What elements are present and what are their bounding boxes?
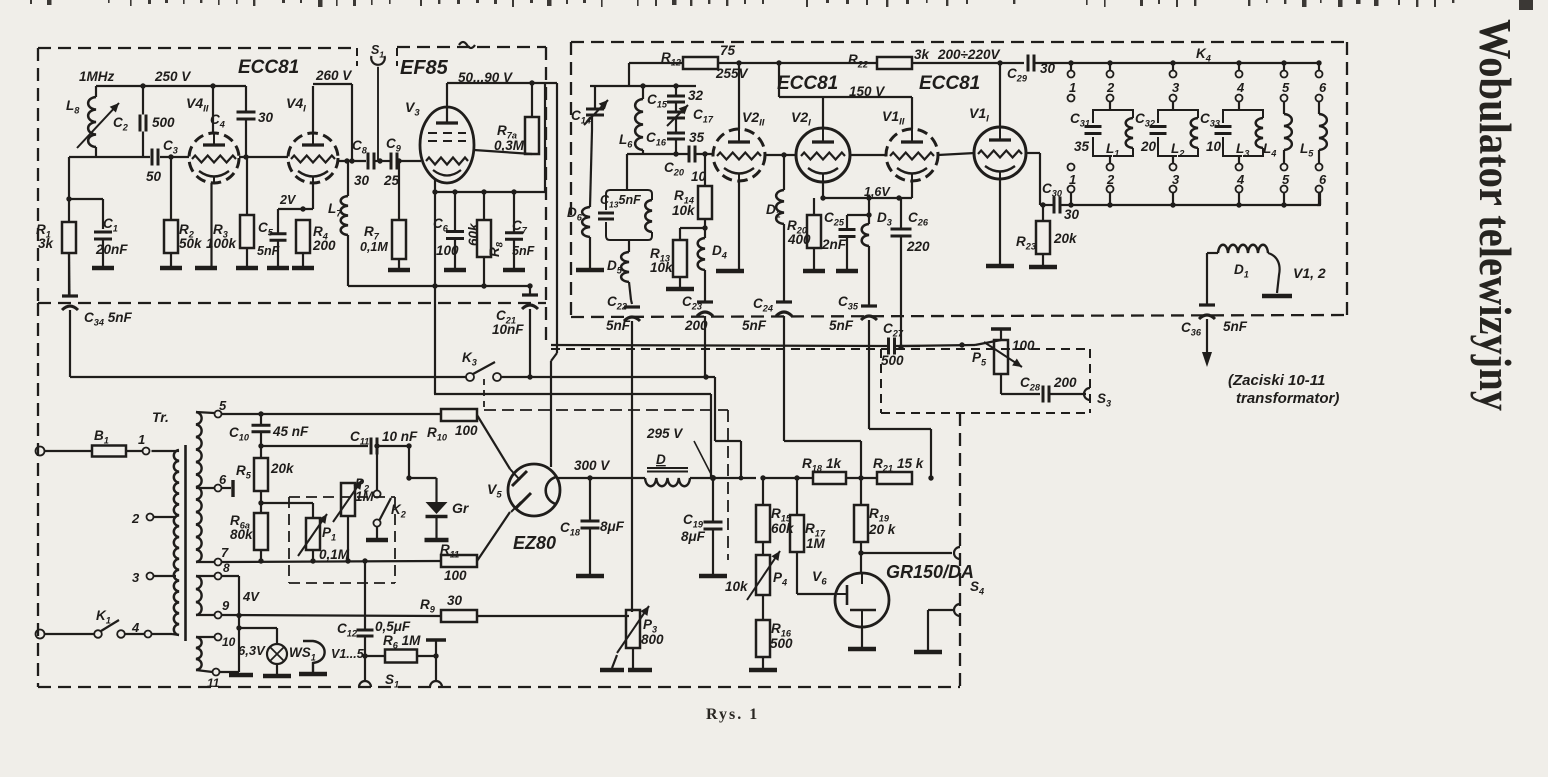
terminal tap 9: [215, 612, 222, 619]
switch K4 contact lower 6b: [1316, 186, 1323, 193]
svg-text:Gr: Gr: [452, 500, 470, 516]
svg-text:10k: 10k: [650, 260, 674, 275]
label WS1: [289, 645, 316, 663]
tube V4I (ECC81 half): [288, 133, 338, 184]
wire C28 to S3: [1050, 393, 1086, 395]
coil D1: [1207, 245, 1268, 300]
wire tap 3: [153, 575, 176, 577]
wire input to K1: [44, 633, 94, 635]
svg-text:1M: 1M: [355, 489, 375, 504]
junction R1-C1: [66, 196, 71, 201]
label C12: [337, 621, 358, 639]
label R17: [805, 521, 826, 539]
dashed enclosure PSU box right edge: [959, 413, 961, 687]
resistor R11: [441, 555, 477, 567]
wire tap 10: [196, 636, 214, 638]
capacitor C11: [371, 438, 377, 455]
resistor R12: [683, 57, 718, 69]
junction C27 out: [959, 342, 964, 347]
value label 10nF (C21): [492, 322, 524, 337]
terminal tap 10: [215, 634, 222, 641]
label C28: [1020, 375, 1041, 393]
tank circuit C33 L3: [1215, 110, 1264, 156]
label R18: [802, 456, 823, 474]
label C31: [1070, 111, 1090, 129]
wire C10-C11 line: [261, 445, 368, 447]
junction C12 top: [362, 558, 367, 563]
pin number 5 (upper): [1282, 80, 1290, 95]
value label 30 (C29): [1040, 61, 1056, 76]
value label 500 (R16): [770, 636, 793, 651]
svg-text:20nF: 20nF: [95, 242, 128, 257]
value label 10nF (C11): [382, 429, 418, 444]
junction C30-R23: [1040, 202, 1045, 207]
cut-off text row from previous page: [30, 0, 1533, 10]
junction K4 rail col 3: [1170, 60, 1175, 65]
label L8: [66, 98, 80, 116]
wire C22 down: [631, 321, 633, 612]
label C22: [607, 294, 628, 312]
value label 8uF (C19): [681, 529, 706, 544]
pin number 6 (upper): [1319, 80, 1327, 95]
value label 0,1M (P1): [319, 547, 350, 562]
wire P4 to R16: [762, 595, 764, 620]
label V1...5: [331, 647, 365, 661]
wire C8 to C9: [375, 160, 390, 162]
resistor R2: [164, 157, 178, 266]
value label 200 (C23): [684, 318, 708, 333]
svg-text:100: 100: [444, 568, 467, 583]
ground under D6: [576, 268, 604, 273]
wire bus to R18: [797, 477, 813, 479]
switch K4 contact lower 2b: [1107, 186, 1114, 193]
value label 5nF (C24): [742, 318, 767, 333]
junction C4-grid: [243, 154, 248, 159]
wire K4 lower stub col 3: [1172, 193, 1174, 206]
switch K4 contact lower 1a: [1068, 164, 1075, 171]
coil L4: [1284, 114, 1292, 150]
wire S4 lower to ground: [928, 610, 954, 650]
tank circuit C31 L1: [1085, 110, 1134, 156]
value label 35 (C31): [1074, 139, 1090, 154]
junction V2I cathode node: [820, 195, 825, 200]
ground under P3: [600, 668, 624, 673]
label 200-220V: [937, 47, 1000, 62]
svg-text:100k: 100k: [206, 236, 238, 251]
tube V2I (ECC81 half): [796, 128, 850, 183]
wire C1 to ground: [102, 239, 104, 266]
value label 800 (P3): [641, 632, 664, 647]
pin number 5: [219, 398, 227, 413]
pin number 10: [222, 635, 236, 649]
wire 150V line: [779, 63, 912, 97]
dashed P5 box right edge: [1089, 349, 1091, 413]
wire V2I anode: [822, 97, 824, 128]
junction K4 rail col 1: [1068, 60, 1073, 65]
pin number 1 (lower): [1069, 172, 1076, 187]
tube V6 (GR150/DA regulator): [835, 573, 889, 627]
value label 1k (R18): [826, 456, 843, 471]
resistor R22: [877, 57, 912, 69]
value label 100k: [206, 236, 238, 251]
svg-text:10: 10: [222, 635, 236, 649]
switch K4 contact upper 1b: [1068, 95, 1075, 102]
tube V3 (EF85 pentode): [420, 107, 474, 183]
svg-text:3k: 3k: [38, 236, 55, 251]
label 295V: [646, 426, 683, 441]
dashed stub at S1 gap left: [356, 48, 358, 66]
pin number 2 (primary): [131, 511, 140, 526]
switch K4 contact lower 6a: [1316, 164, 1323, 171]
svg-text:2: 2: [131, 511, 140, 526]
label Gr: [452, 500, 470, 516]
dashed enclosure box B right edge: [1346, 42, 1348, 316]
ground under R7: [388, 268, 410, 273]
value label 0,3M: [494, 138, 525, 153]
switch K4 contact lower 3a: [1170, 164, 1177, 171]
label K1: [96, 608, 111, 626]
junction R6 right: [433, 653, 438, 658]
ground under C1: [92, 266, 114, 271]
value label 10k (P4): [725, 579, 749, 594]
junction P2 bottom: [345, 558, 350, 563]
svg-text:1M: 1M: [806, 536, 826, 551]
wire C9 to V3 grid: [398, 160, 421, 162]
label Tr.: [152, 409, 169, 425]
wire R18 to R19 node: [846, 477, 877, 479]
junction K4 rail col 2: [1107, 60, 1112, 65]
label V5: [487, 481, 502, 501]
svg-text:260 V: 260 V: [315, 68, 352, 83]
wire V1I grid out: [1026, 153, 1040, 205]
svg-text:80k: 80k: [230, 527, 254, 542]
label 2V: [279, 193, 297, 207]
chassis bar tap 6: [231, 480, 234, 497]
svg-text:2: 2: [1106, 80, 1115, 95]
ground under R23: [1029, 265, 1057, 270]
value label 20k (R23): [1053, 231, 1078, 246]
label V4a: [186, 95, 209, 115]
wire K4 stub col 6: [1318, 63, 1320, 71]
label 1MHz: [79, 69, 115, 84]
capacitor C25: [839, 215, 856, 269]
label C1: [103, 216, 118, 234]
capacitor C36: [1199, 305, 1215, 319]
wire C36 top: [1206, 300, 1208, 305]
label L2: [1171, 141, 1185, 159]
resistor R19: [854, 478, 868, 553]
ground under C19: [699, 574, 727, 579]
svg-text:6: 6: [1319, 172, 1327, 187]
value label 220 (C26): [906, 239, 930, 254]
capacitor C1: [94, 232, 112, 239]
label R7a: [497, 123, 517, 141]
wire C20 to V2II grid: [696, 153, 713, 155]
dashed enclosure box A (oscillator+EF85 section) left edge: [37, 48, 39, 303]
label V1,2: [1293, 265, 1326, 281]
capacitor C2: [140, 86, 146, 157]
capacitor C4: [237, 86, 256, 157]
svg-text:20k: 20k: [270, 461, 295, 476]
label K2: [391, 502, 407, 520]
label C23: [682, 294, 702, 312]
wire bus to R17: [763, 477, 797, 479]
heater bracket V1...5: [303, 641, 325, 672]
svg-text:220: 220: [906, 239, 930, 254]
switch K4 contact upper 2a: [1107, 71, 1114, 78]
capacitor C19: [704, 478, 723, 574]
capacitor C35: [861, 306, 877, 320]
dashed enclosure box A top edge (left part): [38, 47, 357, 49]
coil D4: [698, 228, 705, 303]
label C6: [433, 216, 449, 234]
resistor R20: [807, 198, 821, 269]
svg-text:10 nF: 10 nF: [382, 429, 418, 444]
ground under heater bracket: [299, 672, 327, 677]
wire K4 bottom rail: [1071, 193, 1320, 205]
svg-text:25: 25: [383, 173, 400, 188]
label B1: [94, 428, 109, 446]
svg-text:500: 500: [881, 353, 904, 368]
capacitor C15: [667, 86, 685, 102]
wire tap 7 rail: [196, 561, 441, 562]
svg-text:5: 5: [219, 398, 227, 413]
junction bottom-C21: [527, 283, 532, 288]
svg-text:10k: 10k: [725, 579, 749, 594]
wire choke out: [690, 477, 713, 479]
svg-text:7: 7: [221, 545, 229, 560]
ground under V4a cathode: [195, 266, 217, 271]
resistor R6: [385, 650, 417, 663]
svg-text:10k: 10k: [672, 203, 696, 218]
svg-text:5nF: 5nF: [606, 318, 631, 333]
label EF85 (tube type): [400, 57, 449, 79]
wire D1 to ground: [1268, 253, 1280, 293]
wire tank top: [590, 85, 696, 87]
pin number 4 (lower): [1236, 172, 1245, 187]
wire C27 to P5: [901, 340, 1001, 346]
junction R15 top: [760, 475, 765, 480]
wire C34 down: [69, 310, 71, 377]
pin number 8: [223, 561, 230, 575]
vertical title Wobulator telewizyjny: [1470, 19, 1521, 411]
value label 5nF (C35): [829, 318, 854, 333]
wire V1II cathode: [911, 181, 913, 198]
potentiometer P3: [617, 606, 649, 653]
capacitor C30: [1040, 197, 1071, 214]
label C18: [560, 520, 581, 538]
svg-text:60k: 60k: [771, 521, 795, 536]
label C9: [386, 136, 402, 154]
svg-text:8μF: 8μF: [681, 529, 706, 544]
wire tap 9 rail (R9 feed): [196, 615, 441, 616]
svg-text:11: 11: [207, 676, 220, 690]
junction C35 top: [866, 195, 871, 200]
dashed stub at S1 gap right: [396, 48, 398, 66]
value label 20 (C32): [1140, 139, 1157, 154]
label L1: [1106, 141, 1119, 159]
tube V2II (ECC81 half): [713, 129, 765, 182]
svg-text:100: 100: [1012, 338, 1035, 353]
label C30: [1042, 181, 1063, 199]
svg-text:5nF: 5nF: [742, 318, 767, 333]
dash-dot mechanical link vertical: [727, 410, 729, 560]
junction V6 anode node: [858, 550, 863, 555]
label 4V: [242, 589, 260, 604]
wire lamp feed: [239, 627, 277, 629]
svg-text:5nF: 5nF: [1223, 319, 1248, 334]
label R19: [869, 506, 890, 524]
svg-text:9: 9: [222, 598, 230, 613]
junction rail-R7a: [529, 80, 534, 85]
value label 3k: [38, 236, 55, 251]
wire B+ riser from V5: [551, 83, 557, 467]
label R6: [383, 633, 421, 651]
svg-text:50: 50: [146, 169, 162, 184]
wire 260V feed: [313, 84, 352, 161]
wire K4 to tank: [1172, 102, 1174, 164]
label R11: [440, 542, 459, 560]
label 300V: [574, 458, 610, 473]
wire K4 col6 lower corner: [1319, 199, 1321, 205]
junction R6a bottom: [258, 558, 263, 563]
junction tap8 line crosses R9 wire: [236, 613, 241, 618]
svg-text:3k: 3k: [914, 47, 931, 62]
transformer secondary winding 2 (4V): [196, 576, 202, 615]
label C3: [163, 138, 178, 156]
wire K4 to coil: [1318, 102, 1320, 164]
ground under C25: [836, 269, 858, 274]
dashed P5 box bottom edge: [881, 412, 1090, 414]
filter choke D: [645, 468, 690, 486]
resistor R4: [296, 220, 310, 266]
label R13: [650, 246, 670, 264]
wire input to B1: [44, 450, 92, 452]
resistor R15: [756, 478, 770, 555]
pin number 4 (upper): [1236, 80, 1245, 95]
value label 100 (C6): [436, 243, 459, 258]
wire 1.6V bus: [823, 197, 912, 199]
value label 5nF (C36): [1223, 319, 1248, 334]
wire R1 branch: [68, 157, 70, 222]
terminal primary 3: [147, 573, 154, 580]
transformer secondary winding 1: [196, 412, 202, 562]
transformer core: [184, 445, 187, 641]
label V1II: [882, 108, 905, 128]
wire R22 to C29: [912, 62, 1024, 64]
label C21: [496, 308, 516, 326]
svg-text:200: 200: [1053, 375, 1077, 390]
wire V2II cathode: [738, 181, 740, 269]
label C15: [647, 92, 668, 110]
wire K4 to tank: [1238, 102, 1240, 164]
switch K4 contact upper 6a: [1316, 71, 1323, 78]
capacitor C14 (variable): [584, 86, 608, 207]
wire C1 branch: [69, 199, 103, 229]
pin number 3 (upper): [1172, 80, 1180, 95]
value label 1M (P2): [355, 489, 375, 504]
label C11: [350, 429, 369, 447]
label D (choke): [656, 452, 666, 467]
wire P3 wiper down: [612, 655, 617, 668]
capacitor C21: [522, 295, 538, 309]
svg-text:transformator): transformator): [1236, 390, 1339, 407]
wire V1II grid to V1I: [938, 153, 975, 155]
switch K4 contact upper 1a: [1068, 71, 1075, 78]
junction K3-C21: [527, 374, 532, 379]
pointer 295V: [694, 441, 712, 476]
terminal tap 8: [215, 573, 222, 580]
dashed enclosure box A top edge (EF85 part): [397, 46, 546, 48]
label V3: [405, 99, 420, 119]
junction K4 rail col 4: [1236, 60, 1241, 65]
value label 60k: [771, 521, 795, 536]
fuse B1: [92, 446, 143, 457]
capacitor C10: [252, 414, 271, 446]
switch K1: [94, 620, 125, 638]
junction C10-R5: [258, 443, 263, 448]
junction C7: [511, 189, 516, 194]
wire K4 lower stub col 5: [1283, 193, 1285, 206]
coil L5: [1319, 114, 1327, 150]
svg-text:V1, 2: V1, 2: [1293, 265, 1326, 281]
junction K4 rail col 6: [1316, 60, 1321, 65]
wire to primary bottom: [152, 634, 180, 635]
switch K4 contact lower 2a: [1107, 164, 1114, 171]
svg-text:4: 4: [1236, 172, 1245, 187]
svg-text:10: 10: [1206, 139, 1222, 154]
resistor R16: [756, 620, 770, 668]
dashed P5 box top edge: [881, 348, 1090, 350]
label 150V: [849, 84, 885, 99]
svg-text:V1...5: V1...5: [331, 647, 365, 661]
wire R1 to C34: [68, 253, 70, 295]
value label 20k (R19): [868, 522, 897, 537]
label R2: [179, 222, 195, 240]
terminal bar above P5: [991, 329, 1011, 340]
coil L8: [88, 86, 96, 157]
label 260V: [315, 68, 352, 83]
resistor R7a: [525, 83, 539, 154]
svg-text:5nF: 5nF: [512, 244, 535, 258]
svg-text:0,5μF: 0,5μF: [375, 619, 411, 634]
svg-text:500: 500: [770, 636, 793, 651]
label C29: [1007, 66, 1028, 84]
resistor R23: [1036, 205, 1050, 265]
svg-text:400: 400: [787, 232, 811, 247]
svg-text:45 nF: 45 nF: [272, 424, 309, 439]
ground under R16: [749, 668, 777, 673]
svg-text:ECC81: ECC81: [238, 57, 299, 78]
pin number 2 (lower): [1106, 172, 1115, 187]
potentiometer P2: [333, 480, 362, 522]
junction 1.6V node: [896, 195, 901, 200]
svg-text:250 V: 250 V: [154, 69, 191, 84]
svg-text:4: 4: [1236, 80, 1245, 95]
pin number 4 (primary): [131, 620, 140, 635]
junction R21 right: [928, 475, 933, 480]
wire R12 right: [718, 62, 877, 64]
junction 295V node: [710, 475, 743, 481]
wire R17 to V6 grid: [797, 593, 835, 595]
wire grid line V4a: [69, 156, 189, 158]
label C36: [1181, 320, 1202, 338]
svg-text:Tr.: Tr.: [152, 409, 169, 425]
arrow C36 output: [1202, 319, 1212, 367]
wire P5 to C28: [1001, 374, 1040, 394]
dashed enclosure box A right edge: [545, 47, 547, 345]
capacitor C18: [581, 478, 600, 574]
